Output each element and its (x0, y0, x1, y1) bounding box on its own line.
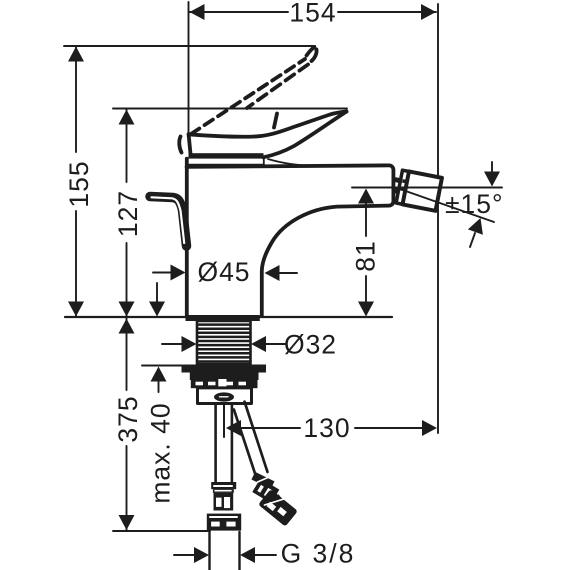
svg-text:Ø32: Ø32 (284, 330, 337, 360)
svg-text:max. 40: max. 40 (146, 402, 176, 503)
svg-text:Ø45: Ø45 (197, 257, 250, 287)
svg-text:155: 155 (64, 160, 94, 207)
svg-text:375: 375 (113, 395, 143, 442)
svg-text:G 3/8: G 3/8 (281, 539, 356, 569)
svg-text:130: 130 (303, 413, 350, 443)
svg-text:127: 127 (113, 190, 143, 237)
svg-text:81: 81 (351, 240, 381, 271)
svg-text:154: 154 (289, 0, 336, 28)
svg-text:±15°: ±15° (445, 189, 504, 219)
